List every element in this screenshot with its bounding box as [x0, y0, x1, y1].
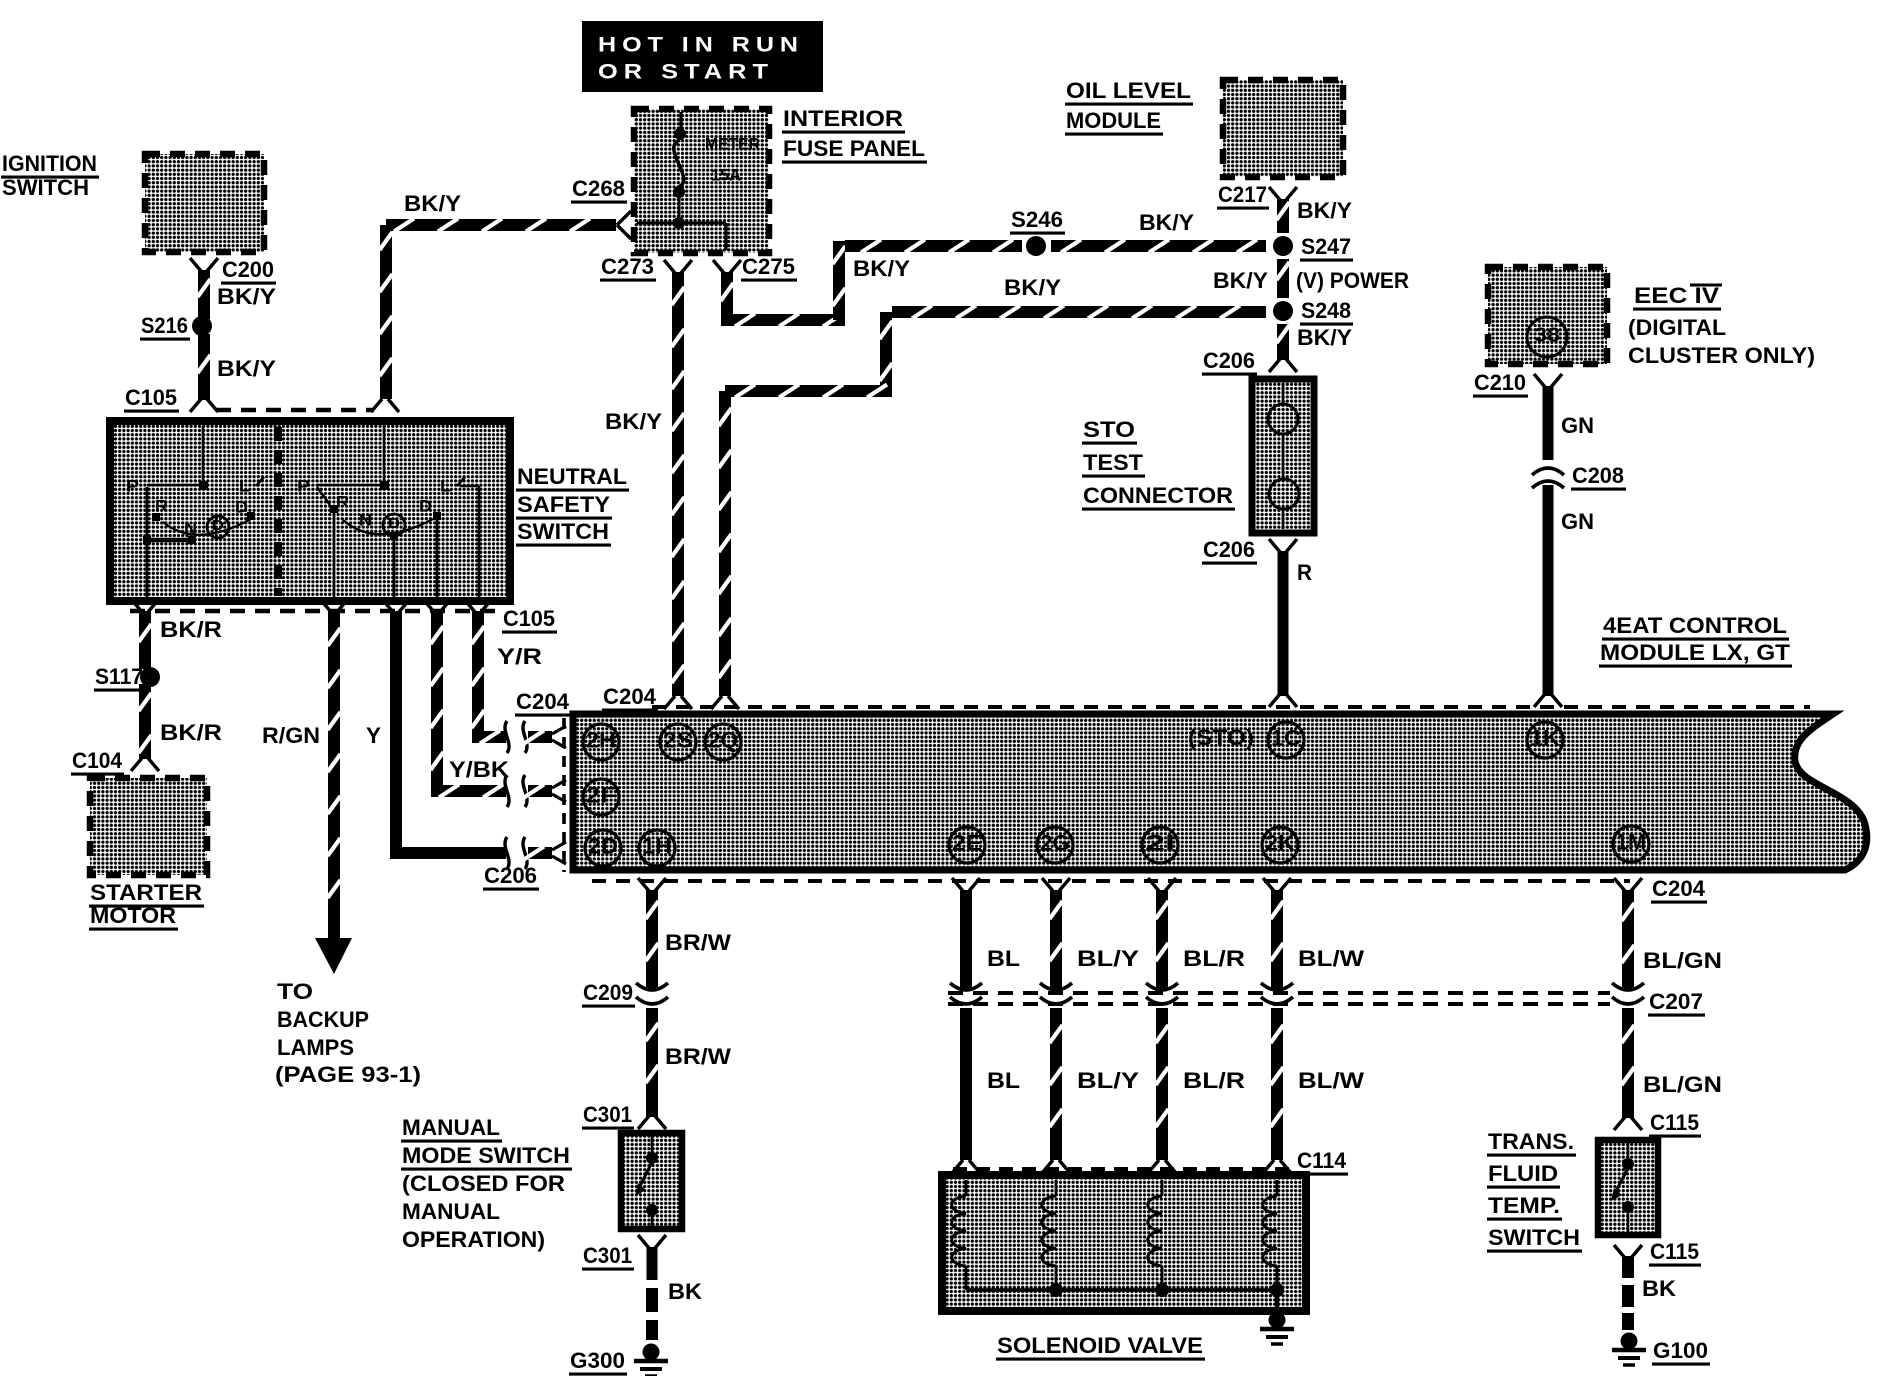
svg-text:L: L: [239, 476, 250, 495]
svg-text:CONNECTOR: CONNECTOR: [1083, 483, 1233, 508]
wire label BR/W: [665, 930, 731, 955]
svg-text:Y/BK: Y/BK: [449, 757, 509, 782]
stub wires into module left: [524, 726, 566, 864]
svg-text:L: L: [440, 476, 451, 495]
wire label R: [1297, 560, 1312, 585]
svg-text:2Q: 2Q: [708, 728, 738, 753]
svg-text:C301: C301: [583, 1243, 632, 1268]
svg-text:S117: S117: [95, 664, 143, 689]
svg-text:BL: BL: [987, 1068, 1020, 1093]
module pin 1C: [1268, 722, 1304, 758]
connector C268: [571, 176, 631, 239]
connector C206 (bottom of STO test connector): [1202, 537, 1297, 563]
svg-text:(CLOSED FOR: (CLOSED FOR: [402, 1171, 565, 1196]
wire BL/R module to C207: [1156, 890, 1169, 988]
svg-text:SWITCH: SWITCH: [517, 519, 609, 544]
svg-text:R/GN: R/GN: [262, 723, 320, 748]
splice S246: [1010, 207, 1065, 256]
svg-text:Y/R: Y/R: [497, 644, 542, 669]
svg-text:BK/Y: BK/Y: [1297, 325, 1352, 350]
svg-text:S248: S248: [1301, 298, 1351, 323]
svg-text:STARTER: STARTER: [90, 880, 202, 905]
wire R to module (STO) 1C: [1278, 551, 1289, 696]
svg-text:BL/Y: BL/Y: [1077, 946, 1139, 971]
connector C206 (top of STO test connector): [1202, 348, 1297, 374]
svg-text:BK/Y: BK/Y: [1139, 210, 1194, 235]
svg-text:R: R: [1297, 560, 1312, 585]
wire BL C207 to C114: [960, 1008, 972, 1160]
wire label BK/Y: [1297, 325, 1352, 350]
component label IGNITION SWITCH: [1, 151, 99, 200]
connector C217: [1217, 182, 1297, 208]
wire label Y/R: [497, 644, 542, 669]
svg-text:BK/Y: BK/Y: [1297, 198, 1352, 223]
connector C207 break on BL: [950, 983, 982, 1004]
svg-text:BL/R: BL/R: [1183, 946, 1245, 971]
wire BL/W module to C207: [1271, 890, 1284, 988]
arrow to backup lamps: [315, 938, 352, 974]
svg-text:MOTOR: MOTOR: [90, 903, 176, 928]
module pin 2G: [1037, 827, 1073, 863]
svg-text:STO: STO: [1083, 417, 1135, 442]
ignition switch (component box): [145, 154, 264, 252]
splice S117: [94, 664, 160, 690]
svg-text:BK/Y: BK/Y: [404, 191, 461, 216]
component label EEC IV (DIGITAL CLUSTER ONLY): [1628, 283, 1815, 368]
svg-text:(PAGE 93-1): (PAGE 93-1): [275, 1062, 421, 1087]
connector row below module (dashed) with C204 label: [592, 876, 1707, 902]
svg-text:SOLENOID VALVE: SOLENOID VALVE: [997, 1333, 1203, 1358]
component label 4EAT CONTROL MODULE LX, GT: [1599, 613, 1792, 666]
svg-text:BL/W: BL/W: [1298, 1068, 1364, 1093]
svg-text:C204: C204: [1652, 876, 1706, 901]
svg-text:TEMP.: TEMP.: [1488, 1193, 1560, 1218]
connector C275: [713, 254, 797, 280]
svg-text:OPERATION): OPERATION): [402, 1227, 545, 1252]
svg-text:C105: C105: [503, 606, 555, 631]
svg-text:BK/Y: BK/Y: [605, 409, 662, 434]
wire Y/BK NSS to module 2F: [431, 611, 507, 798]
wire BK/Y C200 to S216: [198, 270, 211, 319]
wire BK/R S117 to C104: [139, 684, 152, 759]
net label (V) POWER: [1296, 268, 1409, 293]
splice S216: [140, 313, 212, 339]
connector C301 (top): [582, 1102, 666, 1129]
module pin 2Q: [705, 724, 741, 760]
interior fuse panel (component box): [634, 109, 769, 253]
svg-text:GN: GN: [1561, 413, 1594, 438]
wire BK/Y S216 to C105: [198, 334, 211, 400]
wire BR/W module to C209: [646, 890, 659, 988]
manual mode switch (component box): [621, 1133, 682, 1229]
svg-text:C217: C217: [1218, 182, 1267, 207]
svg-text:NEUTRAL: NEUTRAL: [517, 464, 627, 489]
wire label BL: [987, 1068, 1020, 1093]
svg-text:BK/Y: BK/Y: [217, 356, 276, 381]
svg-text:S216: S216: [141, 313, 188, 338]
wire label R/GN: [262, 723, 320, 748]
svg-text:EEC IV: EEC IV: [1634, 283, 1719, 308]
svg-text:P: P: [297, 476, 310, 495]
module pin 1K: [1527, 722, 1563, 758]
svg-text:MODE SWITCH: MODE SWITCH: [402, 1143, 570, 1168]
wire BL/Y C207 to C114: [1050, 1008, 1063, 1160]
wire label BK: [668, 1279, 702, 1304]
component label STO TEST CONNECTOR: [1082, 417, 1235, 509]
solenoid valve (component box): [942, 1175, 1306, 1311]
svg-text:OIL LEVEL: OIL LEVEL: [1066, 78, 1191, 103]
svg-text:BK/Y: BK/Y: [853, 256, 910, 281]
wire GN C210 to C208: [1543, 386, 1554, 460]
ground (solenoid valve case): [1260, 1294, 1294, 1344]
wire BK/Y from junction to C268 (horizontal): [386, 219, 616, 232]
module pin 2I: [1142, 827, 1178, 863]
wire label BL/R: [1183, 1068, 1245, 1093]
svg-text:BL/R: BL/R: [1183, 1068, 1245, 1093]
svg-text:BL/W: BL/W: [1298, 946, 1364, 971]
wire BR/W C209 to C301: [646, 1008, 659, 1117]
neutral safety switch (component box): [110, 421, 510, 601]
svg-text:38: 38: [1534, 325, 1560, 347]
wire BL/W C207 to C114: [1271, 1008, 1284, 1160]
svg-text:BK/Y: BK/Y: [217, 284, 276, 309]
svg-text:R: R: [155, 496, 168, 515]
svg-text:C208: C208: [1572, 463, 1624, 488]
svg-text:BL/Y: BL/Y: [1077, 1068, 1139, 1093]
module pin 2F: [583, 779, 619, 815]
svg-text:Y: Y: [366, 723, 381, 748]
svg-text:2D: 2D: [588, 834, 618, 859]
wire label BK/Y: [217, 284, 276, 309]
wire label BL/Y: [1077, 1068, 1139, 1093]
svg-text:1H: 1H: [642, 834, 672, 859]
ground G100: [1612, 1333, 1710, 1366]
svg-text:BR/W: BR/W: [665, 1044, 731, 1069]
svg-text:MANUAL: MANUAL: [402, 1199, 500, 1224]
svg-text:2H: 2H: [586, 728, 616, 753]
svg-text:4EAT CONTROL: 4EAT CONTROL: [1603, 613, 1787, 638]
svg-text:D: D: [388, 515, 400, 532]
connector C114 (dashed row): [952, 1148, 1348, 1174]
svg-text:INTERIOR: INTERIOR: [783, 106, 903, 131]
component label NEUTRAL SAFETY SWITCH: [516, 464, 629, 545]
connector C207 break on BL/GN: [1612, 983, 1644, 1004]
svg-text:(V) POWER: (V) POWER: [1296, 268, 1409, 293]
svg-text:C275: C275: [742, 254, 795, 279]
wire label BL/W: [1298, 946, 1364, 971]
wire label BK/Y: [853, 256, 910, 281]
svg-text:2F: 2F: [586, 783, 616, 808]
module pin 2S: [660, 724, 696, 760]
svg-text:SAFETY: SAFETY: [517, 492, 610, 517]
wire BK/Y jog down-left-down to module: [719, 312, 893, 696]
wire label BK/R: [160, 617, 222, 642]
connector C105 (bottom of NSS): [130, 599, 557, 632]
svg-text:BK/R: BK/R: [160, 720, 222, 745]
connector C115 (bottom): [1614, 1239, 1701, 1265]
svg-text:C209: C209: [583, 980, 633, 1005]
wire Y NSS to module 2D: [390, 611, 506, 859]
wire BL module to C207: [960, 890, 972, 988]
svg-text:C200: C200: [222, 257, 274, 282]
module pin 2H: [583, 724, 619, 760]
wire BK/Y horizontal to S248: [892, 306, 1266, 319]
connector C208 (inline): [1532, 463, 1626, 489]
wire BL/GN module to C207: [1622, 890, 1635, 988]
svg-text:2G: 2G: [1040, 831, 1070, 856]
net label (STO): [1188, 725, 1254, 750]
svg-text:BR/W: BR/W: [665, 930, 731, 955]
starter motor (component box): [90, 778, 207, 875]
svg-text:N: N: [359, 510, 372, 529]
wire label BL/W: [1298, 1068, 1364, 1093]
svg-text:(STO): (STO): [1188, 725, 1254, 750]
connector C204 (dashed row above module): [602, 684, 1810, 710]
wire label BK/Y: [1139, 210, 1194, 235]
module pin 1M: [1613, 826, 1649, 862]
svg-text:1C: 1C: [1271, 726, 1301, 751]
svg-text:C207: C207: [1649, 989, 1703, 1014]
svg-text:C301: C301: [583, 1102, 632, 1127]
svg-text:15A: 15A: [711, 165, 741, 184]
svg-text:C104: C104: [72, 748, 123, 773]
connector C200: [190, 257, 276, 283]
svg-text:IGNITION: IGNITION: [2, 151, 97, 176]
svg-text:BACKUP: BACKUP: [277, 1007, 369, 1032]
svg-text:CLUSTER ONLY): CLUSTER ONLY): [1628, 343, 1815, 368]
svg-text:BK: BK: [1642, 1276, 1676, 1301]
connector C301 (bottom): [582, 1235, 666, 1269]
svg-text:BL: BL: [987, 946, 1020, 971]
wire label GN: [1561, 509, 1594, 534]
svg-text:OR START: OR START: [598, 60, 774, 83]
wire BK/Y C217 to S247: [1277, 199, 1290, 233]
svg-text:BK: BK: [668, 1279, 702, 1304]
svg-text:TRANS.: TRANS.: [1488, 1129, 1574, 1154]
connector C207 break on BL/W: [1261, 983, 1293, 1004]
wire label GN: [1561, 413, 1594, 438]
svg-text:SWITCH: SWITCH: [1488, 1225, 1580, 1250]
wire label Y/BK: [449, 757, 509, 782]
svg-text:S246: S246: [1011, 207, 1063, 232]
component label OIL LEVEL MODULE: [1065, 78, 1193, 134]
svg-text:SWITCH: SWITCH: [2, 175, 89, 200]
connector C273: [600, 254, 692, 280]
STO test connector (component box): [1252, 379, 1314, 533]
wire label BK/Y: [404, 191, 461, 216]
svg-text:2E: 2E: [952, 831, 982, 856]
wire BK/Y S248 to C206: [1277, 324, 1290, 360]
wire R/GN NSS to backup lamps arrow: [328, 611, 341, 938]
module left connector boundary (dashed): [562, 718, 566, 872]
connector C104: [71, 748, 159, 774]
wire label BL/Y: [1077, 946, 1139, 971]
svg-text:D: D: [235, 497, 248, 516]
svg-text:C105: C105: [125, 385, 177, 410]
wire BK/Y down to NSS: [380, 225, 393, 399]
svg-text:BK/Y: BK/Y: [1213, 268, 1268, 293]
svg-text:BL/GN: BL/GN: [1643, 948, 1722, 973]
wire label BK/Y: [1004, 275, 1061, 300]
wire label BK/R: [160, 720, 222, 745]
power source tag HOT IN RUN OR START: [582, 21, 823, 92]
4EAT control module (component box): [573, 714, 1867, 870]
svg-text:C206: C206: [1203, 537, 1255, 562]
connector C115 (top): [1614, 1110, 1701, 1136]
component label INTERIOR FUSE PANEL: [782, 106, 927, 162]
wire BL/GN C207 to C115: [1622, 1008, 1635, 1118]
svg-text:C273: C273: [601, 254, 654, 279]
wire BL/R C207 to C114: [1156, 1008, 1169, 1160]
svg-text:BK/Y: BK/Y: [1004, 275, 1061, 300]
wire label BL/GN: [1643, 1072, 1722, 1097]
svg-text:1K: 1K: [1530, 726, 1560, 751]
svg-text:1M: 1M: [1616, 830, 1646, 855]
connector C206 (label below break column): [483, 863, 539, 889]
fuse METER 15A: [637, 112, 760, 250]
wire label BK: [1642, 1276, 1676, 1301]
svg-text:S247: S247: [1301, 234, 1351, 259]
connector C210: [1473, 370, 1562, 396]
svg-text:2I: 2I: [1145, 831, 1175, 856]
trans fluid temp switch (component box): [1598, 1140, 1658, 1235]
svg-text:MODULE: MODULE: [1066, 108, 1161, 133]
wire label BR/W: [665, 1044, 731, 1069]
wire label BL/GN: [1643, 948, 1722, 973]
wire label BK/Y: [605, 409, 662, 434]
module pin 2D: [585, 830, 621, 866]
svg-text:C204: C204: [603, 684, 657, 709]
svg-text:C114: C114: [1297, 1148, 1347, 1173]
svg-text:(DIGITAL: (DIGITAL: [1628, 315, 1726, 340]
module pin 1H: [639, 830, 675, 866]
connector C207 (dashed row): [948, 989, 1705, 1015]
svg-text:C206: C206: [1203, 348, 1255, 373]
svg-text:LAMPS: LAMPS: [277, 1035, 354, 1060]
oil level module (component box): [1223, 80, 1343, 177]
module pin 2E: [949, 827, 985, 863]
svg-text:D: D: [419, 496, 432, 515]
svg-text:C204: C204: [516, 689, 570, 714]
svg-text:C206: C206: [484, 863, 537, 888]
svg-text:METER: METER: [705, 134, 760, 153]
connector C207 break on BL/Y: [1040, 983, 1072, 1004]
connector C204 (inline breaks, left of module): [505, 689, 571, 869]
svg-text:C115: C115: [1650, 1239, 1699, 1264]
note TO BACKUP LAMPS (PAGE 93-1): [275, 979, 421, 1087]
ground G300: [569, 1344, 668, 1376]
wire label BK/Y: [1297, 198, 1352, 223]
wire label BK/Y: [1213, 268, 1268, 293]
component label TRANS. FLUID TEMP. SWITCH: [1487, 1129, 1582, 1251]
svg-text:TO: TO: [277, 979, 313, 1004]
wire BK/R NSS to S117: [139, 611, 152, 669]
wire BK/Y S247 to S248: [1277, 259, 1290, 298]
svg-text:HOT IN RUN: HOT IN RUN: [598, 33, 804, 56]
connector C105 (ignition feed into NSS): [124, 385, 399, 412]
connector C209 (inline): [582, 980, 668, 1006]
wire BL/Y module to C207: [1050, 890, 1063, 988]
component label STARTER MOTOR: [89, 880, 204, 929]
splice S248: [1273, 298, 1353, 324]
svg-text:2S: 2S: [663, 728, 693, 753]
svg-text:TEST: TEST: [1083, 450, 1144, 475]
svg-text:BL/GN: BL/GN: [1643, 1072, 1722, 1097]
svg-text:BK/R: BK/R: [160, 617, 222, 642]
svg-text:MANUAL: MANUAL: [402, 1115, 500, 1140]
svg-text:FUSE PANEL: FUSE PANEL: [783, 136, 925, 161]
svg-text:P: P: [126, 476, 139, 495]
wire BK/Y C275 jog (down, right, up): [721, 241, 846, 327]
svg-text:GN: GN: [1561, 509, 1594, 534]
svg-text:C210: C210: [1474, 370, 1526, 395]
svg-text:C268: C268: [572, 176, 625, 201]
svg-text:MODULE LX, GT: MODULE LX, GT: [1600, 640, 1791, 665]
wire label BK/Y: [217, 356, 276, 381]
wire label BL/R: [1183, 946, 1245, 971]
wire Y/R NSS to module 2H: [472, 611, 507, 744]
connector C207 break on BL/R: [1146, 983, 1178, 1004]
EEC IV (component box): [1488, 267, 1607, 364]
svg-text:C115: C115: [1650, 1110, 1699, 1135]
wire label BL: [987, 946, 1020, 971]
wire GN C208 to module 1K: [1543, 485, 1554, 696]
wire BK C301 to G300 (dashed): [646, 1247, 658, 1340]
wire BK C115 to G100 (dashed): [1622, 1256, 1634, 1330]
wire label Y: [366, 723, 381, 748]
svg-text:FLUID: FLUID: [1488, 1161, 1558, 1186]
component label SOLENOID VALVE: [996, 1333, 1205, 1359]
module pin 2K: [1262, 827, 1298, 863]
wire BK/Y horizontal to S246/S247: [845, 240, 1266, 253]
svg-text:G300: G300: [570, 1348, 625, 1373]
wire BK/Y C273 down to module C204: [672, 272, 685, 696]
svg-text:2K: 2K: [1265, 831, 1295, 856]
svg-text:G100: G100: [1653, 1338, 1708, 1363]
splice S247: [1273, 234, 1353, 260]
component label MANUAL MODE SWITCH: [401, 1115, 572, 1252]
